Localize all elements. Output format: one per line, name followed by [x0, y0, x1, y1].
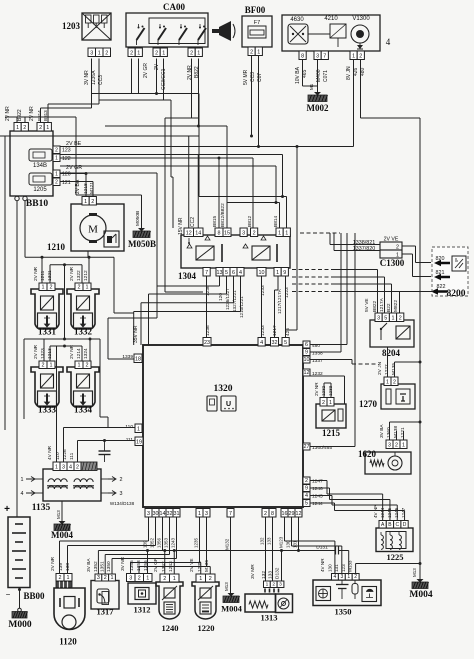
- svg-text:1246: 1246: [394, 507, 399, 518]
- svg-text:CC3: CC3: [250, 72, 256, 82]
- 8204 to 1270 wires: [388, 347, 422, 377]
- svg-text:2: 2: [399, 316, 402, 322]
- svg-text:1317: 1317: [97, 607, 115, 617]
- svg-text:2: 2: [50, 285, 53, 291]
- svg-text:5: 5: [384, 316, 387, 322]
- capacitor on 1135: [99, 441, 111, 463]
- labels above BB10: [5, 106, 48, 121]
- bottom distribution buses: [60, 541, 336, 574]
- svg-text:2: 2: [23, 125, 26, 131]
- svg-text:15V NR: 15V NR: [178, 217, 184, 235]
- svg-text:12: 12: [186, 231, 192, 237]
- svg-text:D132: D132: [275, 567, 281, 579]
- upper wire corners: [92, 92, 204, 292]
- svg-text:2V NR: 2V NR: [5, 106, 11, 121]
- long horizontal bus wires: [0, 104, 354, 204]
- svg-text:5V VE: 5V VE: [364, 298, 370, 312]
- svg-text:1: 1: [257, 50, 260, 56]
- labels above 1334: [69, 344, 89, 359]
- svg-text:B922: B922: [17, 109, 23, 121]
- 1332 connector: [75, 283, 91, 291]
- double relay 1304: [178, 235, 290, 281]
- horn icon right of CA00: [212, 21, 235, 41]
- 1215 pins 2 1: [320, 398, 334, 407]
- svg-text:130: 130: [328, 564, 333, 572]
- svg-text:3: 3: [340, 574, 343, 580]
- staircase wires 1304 to injectors: [134, 276, 241, 345]
- svg-text:1247: 1247: [401, 507, 406, 518]
- svg-text:2: 2: [250, 50, 253, 56]
- 1210 connector pins 1 2: [82, 197, 96, 206]
- 1135 terminal arrows: [21, 477, 123, 498]
- labels above 1225: [373, 504, 406, 518]
- box4 pin 8: [299, 51, 306, 60]
- svg-text:1: 1: [199, 576, 202, 582]
- svg-text:3: 3: [279, 582, 282, 588]
- svg-text:9: 9: [305, 486, 308, 492]
- wire labels below box 4: [295, 66, 366, 84]
- svg-text:1211: 1211: [40, 270, 46, 281]
- wire labels 5V MR / CC3 / C07: [243, 69, 263, 85]
- svg-text:CA00: CA00: [163, 2, 185, 12]
- svg-text:M1: M1: [309, 83, 314, 90]
- svg-text:2V GR: 2V GR: [153, 557, 159, 572]
- svg-text:8: 8: [271, 511, 274, 517]
- svg-text:M13: M13: [412, 568, 417, 577]
- svg-text:8200: 8200: [447, 289, 466, 299]
- svg-text:1: 1: [352, 54, 355, 60]
- 1225 pins A B C D: [379, 521, 408, 529]
- svg-text:30: 30: [153, 511, 159, 517]
- svg-text:F7: F7: [254, 20, 260, 26]
- ECU top pins: [203, 338, 211, 347]
- labels above 1313: [250, 564, 281, 579]
- svg-text:32: 32: [272, 340, 278, 346]
- 1350 pins 4 3 1 2: [332, 574, 360, 581]
- labels 2V BA / 1218 / M121: [75, 179, 95, 194]
- svg-text:1: 1: [55, 156, 58, 162]
- svg-text:1334: 1334: [74, 405, 93, 415]
- svg-text:3V BA: 3V BA: [379, 424, 385, 438]
- connector C1300: [330, 237, 405, 269]
- svg-text:1217/1217A: 1217/1217A: [277, 288, 282, 314]
- svg-text:1: 1: [67, 575, 70, 581]
- BB10 top connector pins 2 1: [37, 123, 51, 132]
- svg-text:1244: 1244: [312, 501, 323, 507]
- svg-text:1226: 1226: [62, 449, 68, 460]
- fuse holder BF00: [242, 5, 272, 47]
- svg-text:M121: M121: [89, 182, 95, 194]
- svg-text:4: 4: [305, 493, 308, 499]
- svg-text:1327/1221: 1327/1221: [232, 290, 237, 312]
- 1240 pins: [160, 574, 179, 582]
- svg-text:5: 5: [284, 340, 287, 346]
- svg-text:1210: 1210: [47, 242, 66, 252]
- CA00 connector strip B pins 2 1: [153, 48, 167, 57]
- pins and wire labels 123 / 122 of 134B: [53, 141, 82, 162]
- svg-text:2: 2: [354, 574, 357, 580]
- svg-text:5V MR: 5V MR: [243, 69, 249, 85]
- 1620 feed wires: [310, 421, 422, 447]
- svg-text:132: 132: [260, 537, 265, 545]
- svg-text:4630: 4630: [290, 17, 304, 23]
- svg-text:2: 2: [190, 51, 193, 57]
- svg-text:B814: B814: [273, 215, 279, 227]
- labels above 1270: [377, 361, 397, 375]
- svg-text:C07: C07: [257, 73, 263, 82]
- svg-text:139: 139: [58, 563, 64, 571]
- svg-text:2: 2: [163, 576, 166, 582]
- svg-text:2: 2: [120, 477, 123, 483]
- svg-text:−: −: [6, 590, 11, 599]
- svg-text:3V BA: 3V BA: [86, 558, 92, 572]
- relay 4210 symbol: [330, 24, 346, 47]
- battery BB00: [4, 504, 45, 601]
- 1304 relay contact left: [187, 236, 222, 262]
- svg-text:8204: 8204: [382, 348, 401, 358]
- labels below 1304: [205, 285, 290, 318]
- svg-text:1: 1: [137, 427, 140, 433]
- svg-text:2: 2: [322, 400, 325, 406]
- svg-text:1337/820: 1337/820: [353, 246, 375, 252]
- CA00 connector strip C pins 2 1: [188, 48, 202, 57]
- knock sensor 1312: [128, 583, 156, 615]
- svg-text:1: 1: [392, 316, 395, 322]
- svg-text:1203: 1203: [62, 21, 81, 31]
- svg-text:V1300: V1300: [352, 16, 370, 22]
- svg-text:2: 2: [130, 51, 133, 57]
- svg-text:C: C: [395, 522, 399, 528]
- svg-text:3: 3: [90, 51, 93, 57]
- svg-text:2: 2: [86, 363, 89, 369]
- svg-text:1214: 1214: [76, 348, 82, 359]
- svg-text:+: +: [4, 504, 10, 515]
- svg-text:1: 1: [16, 125, 19, 131]
- labels above 1333: [33, 344, 53, 359]
- wires to 1313: [281, 551, 283, 582]
- svg-text:14: 14: [160, 511, 166, 517]
- labels above 1332: [69, 266, 89, 281]
- svg-text:2: 2: [104, 575, 107, 581]
- box4 pins 3 7: [314, 51, 328, 60]
- ground M004 of 1135: [51, 501, 73, 540]
- svg-text:1360/465: 1360/465: [312, 445, 332, 451]
- relay 1215: [316, 404, 346, 438]
- labels above 1215: [314, 382, 333, 396]
- svg-text:1225: 1225: [387, 552, 404, 562]
- idle actuator 1620: [358, 449, 411, 474]
- svg-text:5: 5: [305, 501, 308, 507]
- svg-text:4: 4: [69, 465, 72, 471]
- svg-text:2: 2: [59, 575, 62, 581]
- svg-text:7: 7: [205, 270, 208, 276]
- svg-text:13: 13: [217, 270, 223, 276]
- svg-text:1: 1: [111, 575, 114, 581]
- ground M002: [307, 92, 329, 113]
- ignition coil unit 1135: [32, 469, 101, 513]
- svg-text:1: 1: [78, 363, 81, 369]
- svg-text:1322: 1322: [76, 270, 82, 281]
- svg-text:B813: B813: [43, 110, 48, 121]
- ECU right pin 1232: [303, 369, 323, 377]
- svg-text:2: 2: [42, 363, 45, 369]
- diagnostic unit 1313: [245, 594, 293, 623]
- svg-text:122: 122: [62, 156, 71, 162]
- BB10 side wires to bus: [0, 0, 1, 1]
- svg-text:1324: 1324: [83, 348, 89, 359]
- BF00 connector pins 2 1: [248, 47, 262, 56]
- svg-text:2V NR: 2V NR: [69, 344, 75, 359]
- svg-text:111: 111: [69, 452, 75, 460]
- labels above 1135: [47, 445, 75, 460]
- svg-text:1: 1: [197, 51, 200, 57]
- 8204 pins 3 5 1 2: [375, 313, 404, 322]
- relay 134B inside BB10: [29, 149, 52, 169]
- svg-text:1247: 1247: [312, 479, 323, 485]
- line to ECU pin 18 (35V NR): [108, 173, 157, 359]
- 1135 pins 1 3 4 2: [53, 462, 97, 471]
- labels above 8204: [364, 297, 399, 312]
- 1120 pins 2 1: [56, 574, 72, 588]
- connector of 1203 pins 3 1 2: [88, 48, 111, 57]
- svg-text:2: 2: [55, 180, 58, 186]
- svg-text:2: 2: [272, 582, 275, 588]
- svg-text:1240: 1240: [162, 623, 179, 633]
- svg-text:4: 4: [260, 340, 263, 346]
- vertical link injector junction to ECU 110: [100, 339, 108, 428]
- svg-text:12: 12: [304, 370, 310, 376]
- svg-text:3: 3: [120, 491, 123, 497]
- labels above 1317: [86, 558, 112, 572]
- svg-text:12: 12: [296, 511, 302, 517]
- svg-text:2V NR: 2V NR: [187, 65, 193, 80]
- svg-text:1: 1: [386, 380, 389, 386]
- svg-text:4V NR: 4V NR: [47, 445, 53, 460]
- svg-text:1: 1: [146, 576, 149, 582]
- svg-text:7: 7: [323, 54, 326, 60]
- svg-text:2: 2: [393, 380, 396, 386]
- svg-text:9: 9: [305, 350, 308, 356]
- ECU bottom wire risers: [143, 517, 299, 593]
- 1331 connector: [39, 283, 55, 291]
- svg-text:6: 6: [232, 270, 235, 276]
- svg-text:1: 1: [266, 582, 269, 588]
- svg-text:1: 1: [162, 51, 165, 57]
- svg-text:2: 2: [264, 511, 267, 517]
- svg-text:B812/B822: B812/B822: [220, 203, 226, 227]
- svg-text:1332: 1332: [74, 327, 93, 337]
- svg-text:2: 2: [396, 245, 399, 251]
- svg-text:1220: 1220: [198, 623, 215, 633]
- ignition coils 1225: [376, 528, 413, 562]
- injector 1332: [67, 289, 99, 337]
- ECU 110/111 wires to 1135: [64, 428, 136, 463]
- svg-text:2V NR: 2V NR: [314, 382, 319, 396]
- svg-text:2V VE: 2V VE: [189, 558, 195, 572]
- svg-text:1: 1: [55, 172, 58, 178]
- igniter 1270: [359, 384, 415, 409]
- svg-text:7: 7: [229, 511, 232, 517]
- svg-text:23: 23: [204, 340, 210, 346]
- ECU right pins 480/1338/1337: [303, 341, 323, 364]
- svg-text:2: 2: [359, 54, 362, 60]
- svg-text:134B: 134B: [33, 163, 47, 169]
- svg-text:1356: 1356: [157, 537, 162, 548]
- svg-text:32: 32: [167, 511, 173, 517]
- svg-text:1: 1: [86, 285, 89, 291]
- injector 1333: [31, 367, 63, 415]
- dashed continuation links near C1300: [292, 270, 332, 292]
- svg-text:2V NR: 2V NR: [33, 266, 39, 281]
- labels above 1620: [379, 424, 406, 438]
- svg-text:1323: 1323: [40, 348, 46, 359]
- svg-text:1: 1: [278, 231, 281, 237]
- svg-text:3: 3: [242, 231, 245, 237]
- C1300 riser wires: [300, 233, 431, 447]
- 1304 top pins 8 15: [215, 228, 231, 237]
- svg-text:4210: 4210: [324, 16, 338, 22]
- ECU left pin 18: [122, 354, 142, 363]
- svg-text:120: 120: [62, 172, 71, 178]
- svg-text:1: 1: [285, 231, 288, 237]
- svg-text:4: 4: [239, 270, 242, 276]
- svg-text:110: 110: [55, 452, 61, 460]
- svg-text:D: D: [403, 522, 407, 528]
- svg-text:1331: 1331: [38, 327, 57, 337]
- wires ECU to 1225: [310, 481, 405, 521]
- svg-text:1312: 1312: [134, 605, 151, 615]
- component 1203 (crossed-out unit): [82, 13, 111, 40]
- ECU left pin 19 (111): [126, 437, 143, 446]
- wires from CA00 connectors: [132, 59, 199, 127]
- svg-text:1226/1327: 1226/1327: [225, 288, 230, 310]
- pump motor 4630 symbol: [288, 24, 308, 44]
- 1304 bottom pins 13 5 6 4: [216, 268, 244, 277]
- svg-text:M050B: M050B: [128, 239, 156, 249]
- svg-text:3V NR: 3V NR: [84, 70, 90, 85]
- wires to 1350: [285, 541, 422, 574]
- temperature sensor 1240: [156, 582, 183, 633]
- labels above 1220: [189, 558, 210, 572]
- injector 1331: [31, 289, 63, 337]
- 1304 bottom pin 7: [203, 268, 210, 277]
- wires from BF00 down: [250, 56, 260, 149]
- svg-text:3: 3: [316, 54, 319, 60]
- svg-text:M: M: [88, 224, 98, 236]
- engine ECU 1320: [143, 345, 303, 507]
- svg-text:M13: M13: [224, 582, 229, 591]
- svg-text:1620: 1620: [358, 449, 377, 459]
- pins and wire labels 120 / 121 of 1205: [53, 165, 82, 186]
- canister valve 1350: [313, 580, 381, 617]
- svg-text:1233: 1233: [260, 325, 266, 336]
- temperature sensor 1220: [192, 582, 219, 633]
- injector feed line A: [25, 251, 134, 313]
- ECU bottom pins: [145, 509, 302, 518]
- svg-text:3: 3: [62, 465, 65, 471]
- svg-text:8: 8: [218, 231, 221, 237]
- svg-text:1313: 1313: [261, 613, 278, 623]
- svg-text:2: 2: [209, 576, 212, 582]
- 1334 connector: [75, 361, 91, 369]
- svg-text:1: 1: [137, 51, 140, 57]
- 1304 top pin 2: [251, 228, 258, 237]
- ground M000: [8, 588, 31, 631]
- svg-text:2: 2: [78, 285, 81, 291]
- labels above 1312: [120, 556, 149, 571]
- svg-text:480: 480: [312, 343, 320, 349]
- svg-text:M400: M400: [316, 69, 322, 82]
- ground M004 center: [221, 582, 243, 614]
- svg-text:10V BA: 10V BA: [295, 66, 301, 84]
- svg-text:1135: 1135: [32, 503, 51, 513]
- svg-text:1210/1221: 1210/1221: [239, 296, 244, 318]
- svg-text:M004: M004: [221, 604, 243, 614]
- svg-text:19: 19: [136, 440, 142, 446]
- svg-text:1338: 1338: [312, 351, 323, 357]
- 1312 pins 3 2 1: [127, 574, 153, 582]
- svg-text:1: 1: [55, 465, 58, 471]
- 1304 top pin 3: [240, 228, 247, 237]
- feeds down to 1120 1317 1312 1220: [60, 541, 211, 574]
- svg-text:W134/D138: W134/D138: [110, 501, 135, 506]
- svg-text:M002: M002: [307, 103, 329, 113]
- svg-text:M050B: M050B: [135, 211, 141, 226]
- svg-text:BB00: BB00: [23, 591, 45, 601]
- svg-text:3: 3: [388, 443, 391, 449]
- fuel pump 1210: [47, 204, 124, 252]
- svg-text:31: 31: [174, 511, 180, 517]
- 1304 bottom pins 1 9: [274, 268, 288, 277]
- labels above ECU: [133, 325, 291, 343]
- 8204 feed risers: [332, 270, 433, 314]
- svg-text:M000: M000: [8, 620, 31, 630]
- svg-text:U: U: [226, 401, 231, 408]
- 1270 pins 1 2: [384, 377, 398, 386]
- svg-text:2: 2: [305, 478, 308, 484]
- svg-text:16: 16: [282, 511, 288, 517]
- 1317 pins 3 2 1: [95, 574, 115, 581]
- svg-text:121: 121: [62, 180, 71, 186]
- svg-text:8V JN: 8V JN: [346, 66, 352, 80]
- svg-text:3: 3: [377, 316, 380, 322]
- svg-text:8: 8: [301, 54, 304, 60]
- svg-text:1: 1: [84, 199, 87, 205]
- wires 1304 bottom to ECU top: [207, 276, 286, 338]
- svg-text:2: 2: [91, 199, 94, 205]
- svg-text:3: 3: [205, 511, 208, 517]
- svg-text:1235: 1235: [194, 537, 199, 548]
- svg-text:2V NR: 2V NR: [69, 266, 75, 281]
- svg-text:2: 2: [253, 231, 256, 237]
- svg-text:BF00: BF00: [245, 5, 266, 15]
- svg-text:2V NR: 2V NR: [29, 106, 35, 121]
- box4 pins 1 2: [350, 51, 364, 60]
- relay 1205 inside BB10: [29, 173, 52, 193]
- 426 and 480 wires from box 4: [286, 60, 421, 580]
- 1205 to 1210 wires: [60, 172, 93, 197]
- svg-text:M132: M132: [225, 538, 230, 550]
- svg-text:1245: 1245: [312, 494, 323, 500]
- svg-text:1: 1: [329, 400, 332, 406]
- svg-text:1212: 1212: [83, 270, 89, 281]
- 1620 pins 3 2 1: [386, 440, 407, 449]
- svg-text:1353: 1353: [164, 537, 169, 548]
- 1220 pins: [196, 574, 215, 582]
- wires from 1203 connector: [92, 59, 100, 109]
- sensor V1300 symbol: [351, 25, 369, 49]
- svg-text:BB10: BB10: [26, 199, 48, 209]
